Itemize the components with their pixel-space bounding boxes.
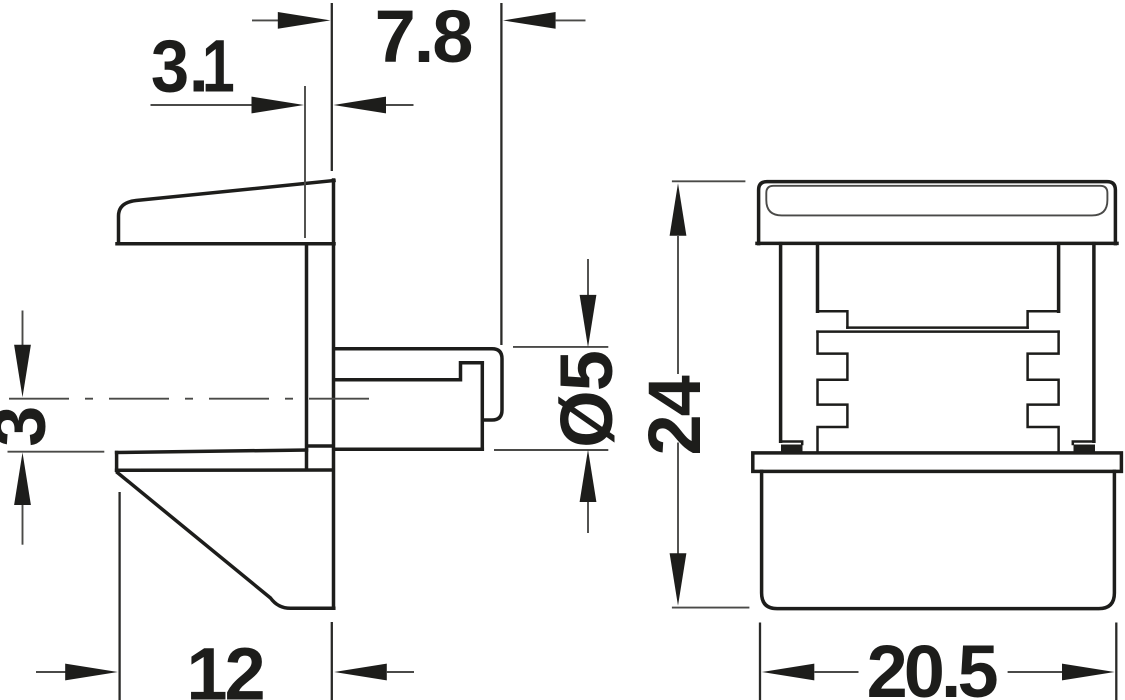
dim 24 top extension xyxy=(672,180,746,182)
svg-text:12: 12 xyxy=(186,633,263,700)
dim 20.5 arrow right xyxy=(1062,664,1115,681)
dim 24 bottom extension xyxy=(672,607,750,609)
dim 3 upper arrow (down) xyxy=(22,311,24,347)
dim 12 arrow right xyxy=(334,664,387,681)
pin bottom xyxy=(334,448,482,452)
top cap bar outline xyxy=(759,182,1116,244)
body top line outer xyxy=(818,330,1059,333)
svg-text:3: 3 xyxy=(0,406,61,447)
extension line x=501.4 xyxy=(500,3,502,345)
dim 24 arrow up xyxy=(670,183,687,236)
dim 24 line lower segment xyxy=(677,443,679,555)
dim 12 left extension line xyxy=(118,492,120,700)
vertical plate left edge xyxy=(305,244,309,470)
neck right xyxy=(1057,244,1061,312)
shelf lip left edge xyxy=(115,453,119,471)
flange plate left xyxy=(779,244,783,442)
svg-text:Ø5: Ø5 xyxy=(545,351,628,448)
right foot fill xyxy=(1074,445,1096,453)
flange plate right xyxy=(1092,244,1096,442)
top cap bar bottom edge xyxy=(757,242,1117,246)
dim 12 right extension line xyxy=(331,622,333,700)
lower wedge gusset xyxy=(118,473,334,609)
dim 20.5 arrow left xyxy=(762,664,815,681)
left foot jog xyxy=(781,442,803,445)
shelf lip bottom xyxy=(117,468,333,472)
svg-text:20.5: 20.5 xyxy=(867,630,998,700)
dim 7.8 arrow left xyxy=(252,19,278,21)
dim Ø5 arrow down xyxy=(580,295,597,348)
plate inner cutout line xyxy=(309,444,333,448)
neck step right xyxy=(1028,311,1059,327)
extension line x=331.8 xyxy=(331,3,333,171)
dim 3 lower arrow (up) xyxy=(14,453,31,506)
svg-text:24: 24 xyxy=(633,375,716,455)
dim Ø5 bottom extension xyxy=(494,449,608,451)
dim 3 lower extension line xyxy=(8,451,105,453)
extension line x=305 (dim 3.1) xyxy=(304,86,306,238)
dim Ø5 top extension xyxy=(513,346,608,348)
body top line inner xyxy=(847,326,1027,329)
dim Ø5 lower shaft xyxy=(587,502,589,533)
dim Ø5 arrow up xyxy=(580,450,597,503)
svg-text:3: 3 xyxy=(151,25,189,108)
dim 20.5 right extension xyxy=(1115,623,1117,700)
dim 3.1 arrow right xyxy=(333,97,386,114)
centerline (axis) xyxy=(9,398,378,400)
pin outline top xyxy=(334,349,502,420)
upper flange wedge xyxy=(117,181,334,244)
sleeve body xyxy=(762,471,1115,608)
neck step left xyxy=(818,311,848,327)
base plate washer xyxy=(753,453,1122,472)
pin barb vertical xyxy=(481,363,485,449)
vertical plate right edge xyxy=(332,180,336,608)
dim 12 arrow left xyxy=(36,671,66,673)
dim 7.8 arrow right xyxy=(503,12,556,29)
dim 3.1 arrow left xyxy=(151,104,256,106)
ratchet teeth left xyxy=(818,332,848,451)
ratchet teeth right xyxy=(1028,332,1059,451)
top cap inset panel xyxy=(766,186,1107,216)
neck left xyxy=(816,244,820,312)
dim 24 line upper segment xyxy=(677,236,679,374)
dim 20.5 left extension xyxy=(759,623,761,700)
right foot jog xyxy=(1073,442,1094,445)
svg-text:1: 1 xyxy=(202,25,235,108)
dim 24 arrow down xyxy=(670,553,687,606)
left foot fill xyxy=(781,445,803,453)
pin notch step xyxy=(334,363,482,380)
dim Ø5 upper shaft xyxy=(587,259,589,296)
shelf lip top xyxy=(117,450,307,453)
svg-text:7.8: 7.8 xyxy=(375,0,472,78)
